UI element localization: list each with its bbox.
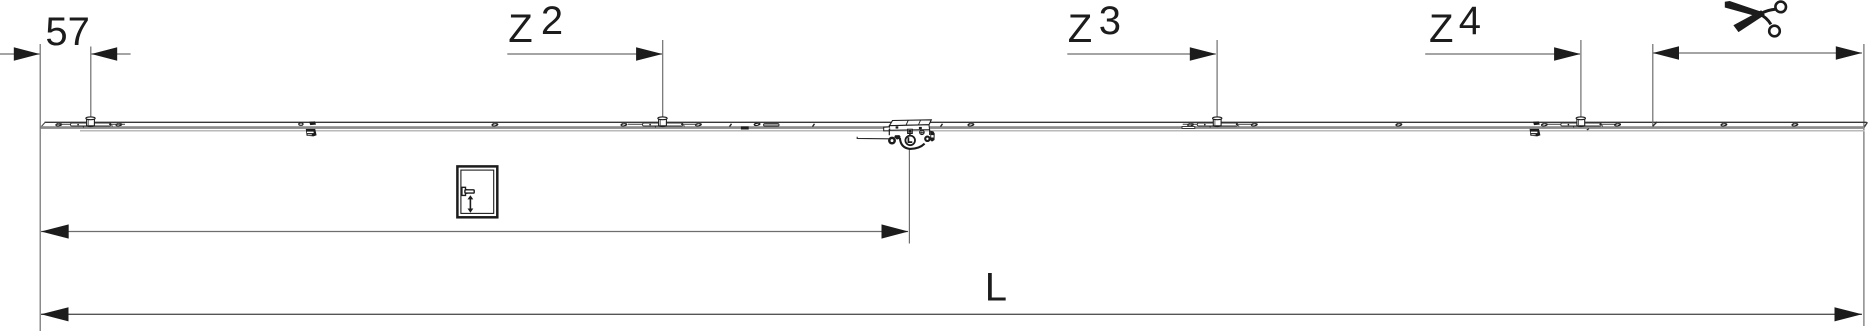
arrow Z3 xyxy=(1190,47,1216,60)
scissors icon xyxy=(1725,1,1786,36)
extension line at cut position xyxy=(1653,44,1657,126)
up-down arrow xyxy=(469,198,471,210)
rail left end chamfer xyxy=(40,122,45,127)
cam pin 4 (mushroom cam) xyxy=(1546,117,1615,128)
extension line at fourth cam pin xyxy=(1580,40,1582,119)
elongated slot xyxy=(764,124,780,127)
rail top edge line xyxy=(45,121,1867,123)
arrow L left xyxy=(41,307,69,321)
left extension line (rail start / datum) xyxy=(39,44,41,331)
arrow cut-off right xyxy=(1836,46,1862,59)
svg-text:Z: Z xyxy=(1068,7,1092,51)
scissors upper blade xyxy=(1725,1,1763,17)
gearbox left step plate xyxy=(884,127,890,131)
dimension line 57 xyxy=(0,53,131,55)
rail lower edge band (light gray) xyxy=(80,130,1864,132)
screw hole left of pin 3 xyxy=(1188,123,1194,126)
stirrup strap xyxy=(900,138,925,149)
screw hole left of pin 4 xyxy=(1541,123,1547,126)
screw hole right of gearbox xyxy=(968,123,974,126)
dimension line cut-off (right) xyxy=(1653,52,1862,54)
central drive disc xyxy=(905,136,915,146)
label 57 xyxy=(45,10,90,54)
scissors handle to lower ring xyxy=(1759,14,1771,24)
left bracket arm xyxy=(894,135,900,140)
svg-text:2: 2 xyxy=(541,0,563,43)
handle lever xyxy=(465,190,474,193)
gearbox left side edge xyxy=(888,129,890,135)
right extension line (rail end / datum) xyxy=(1863,44,1865,326)
cam pin 1 (mushroom cam) xyxy=(56,117,125,128)
svg-text:Z: Z xyxy=(1429,7,1453,51)
screw hole mid rod xyxy=(492,123,498,126)
right roller xyxy=(925,137,929,141)
screw hole right of pin 2 xyxy=(695,123,701,126)
screw hole left of pin 1 xyxy=(56,123,62,126)
scissors upper finger ring xyxy=(1775,2,1786,13)
slider tab below pin 3 plate xyxy=(1182,127,1195,129)
screw hole right section a xyxy=(1721,123,1727,126)
connector clip A xyxy=(299,121,317,136)
right bracket xyxy=(930,131,935,142)
svg-text:3: 3 xyxy=(1099,0,1121,43)
svg-text:Z: Z xyxy=(508,7,532,51)
cam pin 2 (mushroom cam) xyxy=(628,117,697,128)
handle escutcheon xyxy=(462,187,467,195)
screw hole mid rod 2 xyxy=(1396,123,1402,126)
gearbox centre extension line xyxy=(908,150,910,244)
screw hole right of pin 1 xyxy=(116,123,122,126)
label L xyxy=(985,265,1007,309)
arrow Z2 xyxy=(636,47,662,60)
screw head with cross xyxy=(920,130,924,134)
gearbox cover slab xyxy=(889,120,931,126)
gearbox connecting rod edge xyxy=(857,137,889,139)
dimension line L (overall length) xyxy=(41,313,1862,315)
arrow Z4 xyxy=(1554,47,1580,60)
scissors lower finger ring xyxy=(1769,26,1780,37)
svg-text:L: L xyxy=(985,265,1007,309)
screw hole right of pin 4 xyxy=(1615,123,1621,126)
label Z4 xyxy=(1429,0,1481,51)
connector clip B xyxy=(1530,121,1541,136)
arrow handle-dim right xyxy=(882,224,909,238)
window handle icon box xyxy=(457,166,497,217)
svg-text:4: 4 xyxy=(1459,0,1481,43)
rivet tick c xyxy=(941,124,943,127)
spindle square xyxy=(908,129,913,133)
arrow L right xyxy=(1835,307,1863,321)
rivet tick a xyxy=(730,124,732,127)
arrow 57 right xyxy=(91,47,117,60)
rivet tick b xyxy=(813,124,815,127)
extension line at first cam pin xyxy=(90,47,92,119)
screw hole left of pin 2 xyxy=(621,123,627,126)
rod joint dark block xyxy=(741,126,749,129)
cam pin 3 (mushroom cam) xyxy=(1183,117,1252,128)
rail face band (gray) xyxy=(40,126,1864,129)
slider tick below pin 4 plate xyxy=(1587,129,1589,130)
dimension line Z3 xyxy=(1067,53,1215,55)
arrow handle-dim left xyxy=(41,224,69,238)
extension line at third cam pin xyxy=(1216,40,1218,119)
dimension line Z4 xyxy=(1425,53,1580,55)
extension line at second cam pin xyxy=(662,40,664,119)
screw hole right of pin 3 xyxy=(1251,123,1257,126)
dimension line handle position (middle) xyxy=(41,231,908,233)
central gearbox xyxy=(884,120,935,149)
label Z2 xyxy=(508,0,563,51)
label Z3 xyxy=(1068,0,1121,51)
left roller xyxy=(889,138,894,143)
screw hole at joint xyxy=(754,123,760,126)
scissors lower blade xyxy=(1733,10,1764,32)
scissors handle to upper ring xyxy=(1761,9,1775,13)
rail right end chamfer xyxy=(1863,122,1867,128)
arrow 57 left xyxy=(14,47,40,60)
dimension line Z2 xyxy=(507,53,662,55)
gearbox housing band xyxy=(889,125,929,131)
svg-text:57: 57 xyxy=(45,10,90,54)
screw hole right section b xyxy=(1792,123,1798,126)
arrow cut-off left xyxy=(1653,46,1679,59)
